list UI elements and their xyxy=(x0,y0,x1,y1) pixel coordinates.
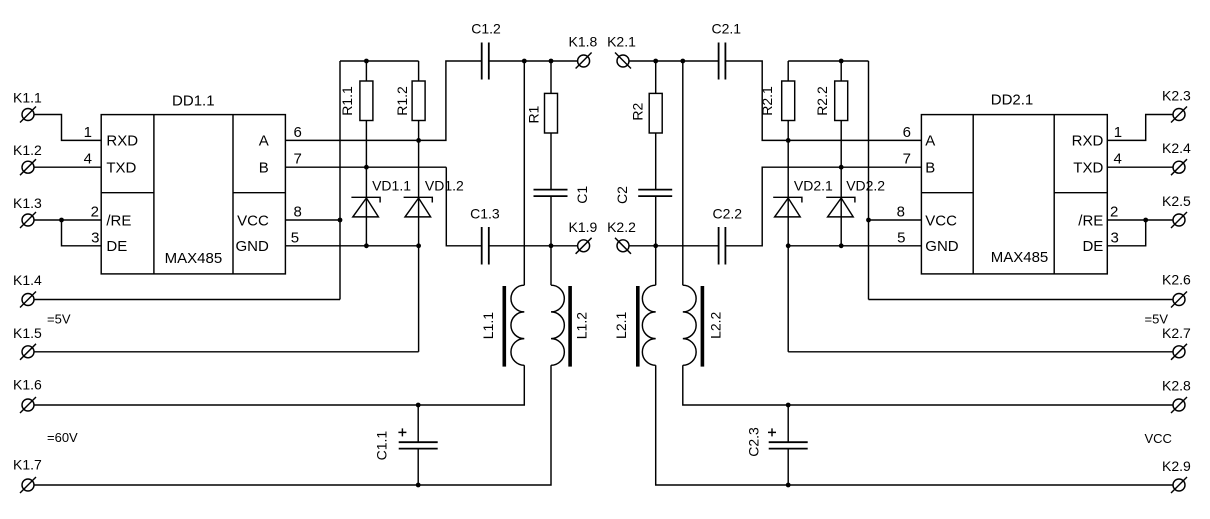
wire K1.5 to GND node xyxy=(34,351,419,353)
svg-text:K2.9: K2.9 xyxy=(1162,458,1191,474)
svg-text:/RE: /RE xyxy=(1078,212,1103,229)
wire VCC-left vertical riser xyxy=(339,61,341,300)
resistor R2.1 xyxy=(782,61,795,140)
svg-text:K1.3: K1.3 xyxy=(13,195,42,211)
terminal K1.5 xyxy=(20,344,36,360)
svg-text:GND: GND xyxy=(235,238,269,255)
wire K2.1 to C2.1 xyxy=(629,60,719,62)
svg-text:DE: DE xyxy=(106,238,127,255)
terminal K2.4 xyxy=(1171,159,1187,175)
wire K2.8 to L2.2 bottom xyxy=(683,365,1173,405)
junction B net R1.1 xyxy=(364,165,369,170)
plus sign of C1.1 xyxy=(398,428,406,436)
svg-text:VCC: VCC xyxy=(925,212,957,229)
junction L1.1 top at K1.8 wire xyxy=(522,59,527,64)
junction C2 bottom K2.2 xyxy=(653,243,658,248)
svg-text:2: 2 xyxy=(1110,204,1118,221)
svg-text:K2.5: K2.5 xyxy=(1162,193,1191,209)
svg-text:C1.2: C1.2 xyxy=(471,20,501,36)
svg-text:C2.1: C2.1 xyxy=(712,20,742,36)
svg-text:3: 3 xyxy=(91,229,99,246)
terminal K1.8 xyxy=(576,53,592,69)
svg-text:7: 7 xyxy=(903,151,911,168)
svg-text:B: B xyxy=(925,160,935,177)
svg-text:L2.1: L2.1 xyxy=(613,311,629,338)
svg-text:7: 7 xyxy=(294,151,302,168)
wire VCC-right vertical riser xyxy=(868,61,870,300)
wire pin 2 /RE to K2.5 xyxy=(1107,219,1173,221)
svg-text:K2.3: K2.3 xyxy=(1162,88,1191,104)
junction C1.1 top xyxy=(416,403,421,408)
op-amp U: IC DD2.1 MAX485 body xyxy=(921,115,1107,274)
op-amp U: IC DD1.1 MAX485 body xyxy=(101,115,285,274)
wire C1.3 to K1.9 xyxy=(489,245,578,247)
diode VD2.2 xyxy=(826,167,855,246)
svg-text:K2.2: K2.2 xyxy=(607,219,636,235)
junction C2.3 top xyxy=(786,403,791,408)
wire B net to C1.3 xyxy=(446,167,481,246)
svg-text:K1.8: K1.8 xyxy=(569,34,598,50)
svg-text:6: 6 xyxy=(294,124,302,141)
core bar of L2.1 xyxy=(636,286,640,367)
wire top bias rail right xyxy=(788,60,868,62)
wire pin 8 VCC stub xyxy=(285,219,340,221)
terminal K1.2 xyxy=(20,159,36,175)
svg-text:1: 1 xyxy=(84,124,92,141)
svg-text:R1.1: R1.1 xyxy=(339,86,355,116)
terminal K2.5 xyxy=(1171,212,1187,228)
core bar of L1.2 xyxy=(568,286,572,367)
junction K2.5 node xyxy=(1143,218,1148,223)
junction R1.1 top xyxy=(364,59,369,64)
svg-text:L1.2: L1.2 xyxy=(574,312,590,339)
terminal K1.9 xyxy=(576,238,592,254)
svg-text:L2.2: L2.2 xyxy=(708,311,724,338)
svg-text:MAX485: MAX485 xyxy=(165,250,223,267)
terminal K1.3 xyxy=(20,212,36,228)
terminal K2.6 xyxy=(1171,292,1187,308)
svg-text:VD2.2: VD2.2 xyxy=(846,178,885,194)
junction C2.3 bottom xyxy=(786,483,791,488)
svg-text:K2.7: K2.7 xyxy=(1162,325,1191,341)
capacitor C1 xyxy=(534,190,568,246)
svg-text:R2.1: R2.1 xyxy=(759,86,775,116)
svg-text:A: A xyxy=(925,132,935,149)
svg-text:K2.8: K2.8 xyxy=(1162,377,1191,393)
svg-text:=5V: =5V xyxy=(1145,312,1169,327)
svg-text:K2.1: K2.1 xyxy=(607,34,636,50)
svg-text:VCC: VCC xyxy=(237,212,269,229)
svg-text:/RE: /RE xyxy=(106,212,131,229)
junction VD1.1 GND xyxy=(364,243,369,248)
svg-text:5: 5 xyxy=(291,229,299,246)
junction R2 top at K2.1 wire xyxy=(653,59,658,64)
svg-text:DD2.1: DD2.1 xyxy=(991,92,1034,109)
svg-text:=60V: =60V xyxy=(47,430,78,445)
svg-text:GND: GND xyxy=(925,238,959,255)
svg-text:VD2.1: VD2.1 xyxy=(794,178,833,194)
svg-text:B: B xyxy=(259,160,269,177)
svg-text:K1.5: K1.5 xyxy=(13,325,42,341)
capacitor C2.3 polarized xyxy=(769,405,808,485)
wire K1.2 to pin 4 TXD xyxy=(34,166,101,168)
wire node K1.3 to pin 3 DE xyxy=(62,220,102,246)
junction C1.1 bottom xyxy=(416,483,421,488)
junction A net R1.2 xyxy=(416,138,421,143)
svg-text:K2.4: K2.4 xyxy=(1162,140,1191,156)
inductor L2.1 winding xyxy=(642,246,655,365)
wire pin 4 TXD to K2.4 xyxy=(1107,166,1173,168)
wire C1.2 to K1.8 xyxy=(489,60,578,62)
wire K2.2 to C2.2 xyxy=(629,245,719,247)
svg-text:TXD: TXD xyxy=(1073,160,1103,177)
resistor R1.1 xyxy=(360,61,373,167)
terminal K2.1 xyxy=(615,53,631,69)
junction VCC left xyxy=(338,218,343,223)
junction R2.2 top xyxy=(839,59,844,64)
diode VD2.1 xyxy=(773,140,802,245)
wire node K2.5 to pin 3 DE xyxy=(1107,220,1145,246)
svg-text:K1.9: K1.9 xyxy=(569,219,598,235)
svg-text:DD1.1: DD1.1 xyxy=(172,92,215,109)
capacitor C2.1 xyxy=(719,43,726,80)
wire K1.6 to L1.1 bottom xyxy=(34,365,524,405)
wire top bias rail left xyxy=(340,60,419,62)
svg-text:C1.3: C1.3 xyxy=(470,205,500,221)
wire pin 5 GND right xyxy=(788,245,921,247)
resistor R2 xyxy=(649,61,662,190)
junction L2.2 top at K2.1 wire xyxy=(680,59,685,64)
capacitor C1.1 polarized xyxy=(399,405,438,485)
svg-text:C1.1: C1.1 xyxy=(374,431,390,461)
junction A net R2.1 xyxy=(786,138,791,143)
inductor L1.1 winding xyxy=(511,61,524,365)
diode VD1.2 xyxy=(404,140,433,245)
junction VCC right xyxy=(866,218,871,223)
terminal K1.6 xyxy=(20,397,36,413)
wire C2.1 to A net right xyxy=(725,61,921,140)
wire K2.9 to L2.1 bottom xyxy=(656,365,1173,485)
svg-text:C2.2: C2.2 xyxy=(713,205,743,221)
wire pin 6 A net left xyxy=(285,139,418,141)
terminal K2.9 xyxy=(1171,477,1187,493)
terminal K2.2 xyxy=(615,238,631,254)
plus sign of C2.3 xyxy=(768,428,776,436)
resistor R1.2 xyxy=(412,61,425,140)
core bar of L2.2 xyxy=(701,286,705,367)
svg-text:R2.2: R2.2 xyxy=(814,86,830,116)
svg-text:4: 4 xyxy=(84,151,92,168)
wire K1.1 to pin 1 RXD xyxy=(34,115,101,141)
terminal K2.7 xyxy=(1171,344,1187,360)
svg-text:L1.1: L1.1 xyxy=(480,312,496,339)
terminal K2.3 xyxy=(1171,107,1187,123)
terminal K1.7 xyxy=(20,477,36,493)
wire K2.7 to GND node right xyxy=(788,351,1173,353)
svg-text:K1.6: K1.6 xyxy=(13,377,42,393)
svg-text:K1.1: K1.1 xyxy=(13,90,42,106)
capacitor C2 xyxy=(638,190,672,246)
junction B net R2.2 xyxy=(839,165,844,170)
svg-text:R1: R1 xyxy=(526,105,542,123)
svg-text:RXD: RXD xyxy=(106,132,138,149)
wire K1.7 to L1.2 bottom xyxy=(34,365,551,485)
wire A net to C1.2 xyxy=(419,61,482,140)
wire pin 5 GND left xyxy=(285,245,418,247)
wire C2.2 to B net right xyxy=(725,167,921,246)
svg-text:C2: C2 xyxy=(614,186,630,204)
wire pin 8 VCC stub right xyxy=(869,219,922,221)
svg-text:K1.4: K1.4 xyxy=(13,272,42,288)
svg-text:TXD: TXD xyxy=(106,160,136,177)
svg-text:2: 2 xyxy=(91,204,99,221)
svg-text:5: 5 xyxy=(897,229,905,246)
capacitor C1.2 xyxy=(482,43,489,80)
svg-text:K1.7: K1.7 xyxy=(13,457,42,473)
resistor R1 xyxy=(545,61,558,190)
capacitor C2.2 xyxy=(719,227,726,265)
svg-text:C2.3: C2.3 xyxy=(746,427,762,457)
junction VD2.2 GND xyxy=(839,243,844,248)
wire K1.5 vertical riser to GND xyxy=(418,246,420,352)
junction K1.3 node xyxy=(59,218,64,223)
terminal K2.8 xyxy=(1171,397,1187,413)
svg-text:K2.6: K2.6 xyxy=(1162,272,1191,288)
svg-text:VD1.1: VD1.1 xyxy=(372,178,411,194)
svg-text:6: 6 xyxy=(903,124,911,141)
junction R1 top at K1.8 wire xyxy=(549,59,554,64)
wire pin 1 RXD to K2.3 xyxy=(1107,115,1173,141)
svg-text:K1.2: K1.2 xyxy=(13,142,42,158)
svg-text:RXD: RXD xyxy=(1072,132,1104,149)
svg-text:A: A xyxy=(259,132,269,149)
svg-text:=5V: =5V xyxy=(47,312,71,327)
svg-text:8: 8 xyxy=(897,204,905,221)
wire K2.7 vertical riser to GND xyxy=(787,246,789,352)
resistor R2.2 xyxy=(835,61,848,167)
junction VD1.2 GND xyxy=(416,243,421,248)
svg-text:4: 4 xyxy=(1114,151,1122,168)
svg-text:VD1.2: VD1.2 xyxy=(425,178,464,194)
wire K1.4 to VCC vertical xyxy=(34,299,340,301)
svg-text:R2: R2 xyxy=(629,103,645,121)
svg-text:1: 1 xyxy=(1114,124,1122,141)
terminal K1.1 xyxy=(20,107,36,123)
terminal K1.4 xyxy=(20,292,36,308)
core bar of L1.1 xyxy=(503,286,507,367)
wire K1.3 to pin 2 /RE xyxy=(34,219,101,221)
wire pin 7 B net left xyxy=(285,166,446,168)
svg-text:MAX485: MAX485 xyxy=(991,249,1049,266)
inductor L2.2 winding xyxy=(683,61,696,365)
wire K2.6 to VCC vertical right xyxy=(869,299,1174,301)
svg-text:8: 8 xyxy=(294,204,302,221)
svg-text:3: 3 xyxy=(1111,229,1119,246)
capacitor C1.3 xyxy=(482,227,489,265)
diode VD1.1 xyxy=(351,167,380,246)
svg-text:VCC: VCC xyxy=(1145,431,1172,446)
junction C1 bottom K1.9 xyxy=(549,243,554,248)
svg-text:R1.2: R1.2 xyxy=(394,86,410,116)
junction VD2.1 GND xyxy=(786,243,791,248)
svg-text:C1: C1 xyxy=(574,186,590,204)
svg-text:DE: DE xyxy=(1082,238,1103,255)
inductor L1.2 winding xyxy=(551,246,564,365)
